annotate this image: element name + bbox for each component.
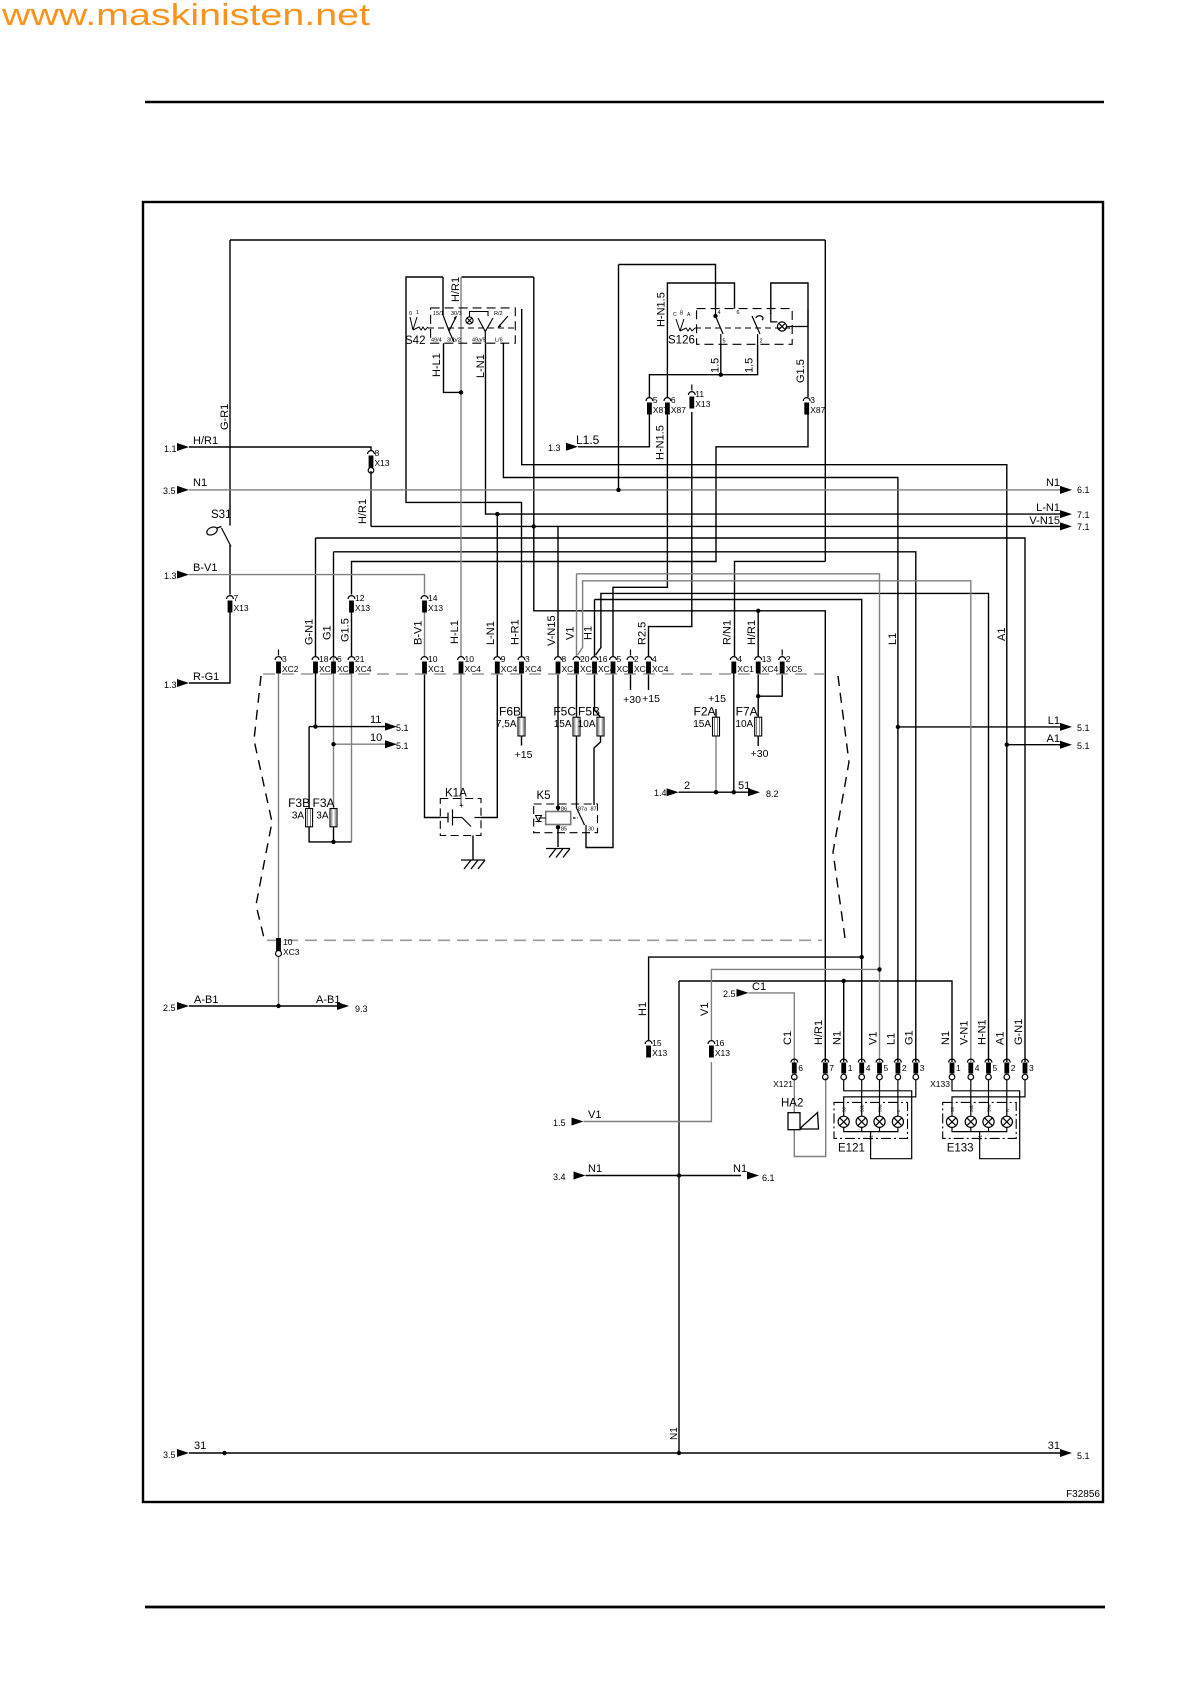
wire B-V1 gray row: [189, 575, 425, 595]
wire G1 XC4-6 to X121 pin 3: [333, 552, 335, 656]
S126 lamp: [771, 309, 808, 332]
wire S42 terminal 15/1 stub: [442, 277, 444, 315]
svg-text:1.4: 1.4: [654, 788, 667, 798]
wire V1 stub X13-16: [711, 969, 879, 1040]
svg-text:51: 51: [738, 780, 750, 792]
svg-text:58: 58: [950, 1106, 955, 1112]
connector X121 pin 2: [895, 1059, 907, 1080]
connector X133 pin 2: [1003, 1059, 1015, 1080]
arrow 1.3 B-V1: [177, 571, 189, 579]
node junction: [756, 609, 760, 613]
svg-text:13: 13: [762, 654, 772, 664]
svg-text:2: 2: [684, 780, 690, 792]
connector XC5 pin 2: [779, 650, 803, 675]
connector XC4 pin 21: [348, 654, 372, 674]
svg-text:V-N15: V-N15: [546, 615, 558, 646]
connector X87 pin 6: [664, 395, 686, 415]
wire H1 below XC4-16 to F5B: [595, 673, 601, 717]
wire B-V1 between X13-14 and XC1-10: [424, 611, 426, 656]
svg-text:8: 8: [375, 448, 380, 458]
svg-text:L-N1: L-N1: [475, 354, 487, 378]
svg-text:H-L1: H-L1: [449, 620, 461, 644]
svg-text:49/4: 49/4: [431, 338, 442, 344]
wire F5B to K5: [594, 737, 601, 806]
svg-text:R-G1: R-G1: [193, 671, 219, 683]
wire E121 return loop: [844, 1080, 912, 1159]
lamp E133 bulb 2: [965, 1116, 976, 1127]
arrow 2.5 A-B1: [177, 1002, 189, 1010]
node junction: [860, 955, 864, 959]
wire S126 terminal 2 down: [721, 344, 758, 374]
wire N1 feed to X121-1 X133-1: [679, 981, 952, 1062]
svg-text:N1: N1: [940, 1031, 952, 1045]
svg-text:F7A: F7A: [736, 705, 758, 719]
svg-text:1: 1: [769, 310, 772, 316]
svg-text:S126: S126: [668, 335, 695, 347]
svg-text:30/3: 30/3: [451, 311, 462, 317]
connector XC4 pin 6: [330, 654, 354, 674]
svg-text:31: 31: [869, 1134, 874, 1140]
svg-text:5: 5: [884, 1063, 889, 1073]
svg-text:5: 5: [617, 654, 622, 664]
svg-text:R/2: R/2: [494, 311, 503, 317]
fuse F7A: [735, 705, 761, 737]
svg-text:10: 10: [465, 654, 475, 664]
svg-text:H/R1: H/R1: [813, 1020, 825, 1045]
wire 10 row gray: [334, 743, 388, 745]
wire A-B1 row: [189, 1005, 340, 1007]
lamp E133 bulb 1: [946, 1116, 957, 1127]
svg-text:56a: 56a: [987, 1104, 992, 1112]
wire feed lamp: [897, 1080, 899, 1108]
wire V-N15 below XC4-8 to K5 coil: [557, 673, 559, 812]
connector X13 pin 11: [688, 385, 710, 410]
lamp bus 31: [844, 1127, 898, 1131]
svg-text:X13: X13: [428, 603, 443, 613]
svg-text:V1: V1: [588, 1109, 601, 1121]
connector X13 pin 15: [645, 1038, 667, 1058]
svg-text:2: 2: [902, 1063, 907, 1073]
arrow 3.4 N1: [574, 1172, 586, 1180]
svg-text:15: 15: [652, 1038, 662, 1048]
wire N1 to 6.1 arrow lower: [679, 1175, 741, 1177]
svg-text:C1: C1: [782, 1031, 794, 1045]
svg-text:7.1: 7.1: [1077, 510, 1090, 520]
K5 coil: [546, 812, 571, 825]
connector X133 pin 3: [1022, 1059, 1034, 1080]
svg-text:+: +: [459, 801, 464, 810]
svg-text:XC1: XC1: [737, 664, 754, 674]
svg-text:XC4: XC4: [652, 664, 669, 674]
svg-text:1: 1: [848, 1063, 853, 1073]
S42 indicator lamp: [466, 312, 488, 325]
wire H/R1 1.1 row: [189, 447, 371, 451]
svg-text:G1.5: G1.5: [795, 359, 807, 383]
switch S42 dashed box: [431, 308, 516, 343]
S126 blade 1: [716, 309, 724, 345]
fuse F5C: [553, 705, 580, 737]
svg-text:18: 18: [319, 654, 329, 664]
node junction: [495, 512, 499, 516]
S126 blade 2 with curl: [752, 316, 763, 345]
wire R-G1 lower to arrow: [189, 611, 230, 683]
svg-text:6: 6: [671, 395, 676, 405]
svg-text:16: 16: [598, 654, 608, 664]
wire L-N1 drop to XC4 pin 9: [496, 514, 498, 656]
svg-text:1.3: 1.3: [548, 443, 561, 453]
wire L1 branch arrow 5.1: [898, 726, 1060, 728]
connector XC4 pin 3: [518, 654, 542, 674]
arrow V-N15 7.1: [1060, 522, 1072, 530]
svg-text:G1.5: G1.5: [339, 618, 351, 642]
wire G-R1/R-N1 top loop box: [230, 239, 825, 241]
connector XC3 pin 10: [276, 937, 300, 957]
lamp E121 bulb 2: [856, 1116, 867, 1127]
connector X121 pin 6: [791, 1059, 803, 1080]
svg-text:H-N1: H-N1: [976, 1019, 988, 1045]
wire L-N1 main to 7.1 arrow: [486, 343, 1061, 514]
svg-text:H-N1.5: H-N1.5: [655, 425, 667, 460]
svg-text:H-N1.5: H-N1.5: [656, 292, 668, 327]
wire F5C to K5: [576, 736, 578, 808]
wire feed lamp: [970, 1080, 972, 1108]
svg-text:E133: E133: [947, 1143, 974, 1155]
wire S126 feed drop to N1: [618, 265, 620, 490]
arrow A-B1 9.3: [337, 1002, 349, 1010]
svg-text:www.maskinisten.net: www.maskinisten.net: [1, 0, 371, 32]
wire H-N1.5 X87-6 down to XC4 pin 5: [613, 412, 667, 656]
svg-text:1.3: 1.3: [164, 680, 177, 690]
svg-text:30b/2: 30b/2: [447, 338, 461, 344]
wire S126 top loop 1: [619, 265, 716, 309]
svg-text:3A: 3A: [292, 811, 305, 822]
wire G-N1 XC4-18 to X133 pin 3: [315, 538, 317, 656]
wire XC4-13 below to F7A and XC5-2: [757, 673, 759, 717]
svg-text:X13: X13: [695, 399, 710, 409]
arrow 3.5 N1: [177, 486, 189, 494]
K5 diode: [536, 816, 546, 822]
wire F3A lower to bus: [333, 744, 335, 808]
wire S126 top loop 2 H-N1.5: [667, 283, 734, 397]
svg-text:2: 2: [760, 339, 763, 345]
S42 lever symbol: [410, 317, 428, 330]
wire XC2-3 down to XC3-10: [278, 673, 280, 938]
svg-text:10: 10: [428, 654, 438, 664]
svg-text:X13: X13: [652, 1048, 667, 1058]
svg-text:5: 5: [993, 1063, 998, 1073]
wire E133 pin3 jog: [952, 1080, 1025, 1108]
bottom rule: [145, 1606, 1105, 1609]
svg-text:N1: N1: [588, 1163, 602, 1175]
svg-text:X121: X121: [773, 1079, 793, 1089]
svg-text:1.5: 1.5: [744, 358, 756, 373]
switch S126 dashed box: [697, 309, 793, 345]
svg-text:G-N1: G-N1: [303, 619, 315, 645]
wire C1 loop: [749, 993, 795, 1063]
svg-text:L/6: L/6: [495, 338, 503, 344]
svg-text:10A: 10A: [735, 719, 753, 730]
wire H/R1 below connector 8 to corner: [370, 471, 372, 526]
K1A internals: [440, 810, 481, 827]
wire G1.5 below XC4-21 to F3 bus: [351, 673, 353, 842]
K1A ground: [461, 860, 485, 869]
wire 1.4 row 2 to 51: [679, 791, 748, 793]
svg-text:G1: G1: [904, 1030, 916, 1045]
wire feed lamp: [879, 1080, 881, 1108]
svg-text:10: 10: [283, 937, 293, 947]
relay K1A dashed box: [440, 799, 481, 836]
connector X13 pin 8: [368, 448, 390, 473]
wire K1A blade to ground: [472, 836, 474, 860]
svg-text:XC1: XC1: [428, 664, 445, 674]
svg-text:G1: G1: [321, 625, 333, 640]
svg-text:E121: E121: [838, 1143, 865, 1155]
svg-text:6.1: 6.1: [762, 1173, 775, 1183]
wire G-R1 vertical lower through S31 to R-G1: [229, 545, 231, 595]
svg-text:6: 6: [798, 1063, 803, 1073]
arrow L1 5.1: [1060, 723, 1072, 731]
wire K5 coil bottom to ground: [557, 825, 559, 848]
S126 lever symbol: [676, 319, 695, 331]
arrow 1.5 V1: [572, 1118, 584, 1126]
K5 ground: [546, 849, 570, 858]
svg-text:F32856: F32856: [1066, 1489, 1100, 1500]
S126 mechanical dashed link: [695, 327, 790, 329]
arrow N1 6.1 lower: [747, 1172, 759, 1180]
node junction: [313, 724, 317, 728]
connector XC4 pin 20: [573, 654, 597, 674]
lamp E133 bulb 4: [1001, 1116, 1012, 1127]
svg-text:G-R1: G-R1: [219, 404, 231, 430]
svg-text:A1: A1: [995, 1032, 1007, 1045]
svg-text:10: 10: [370, 732, 382, 744]
connector XC1 pin 4: [730, 654, 754, 674]
svg-text:V-N1: V-N1: [959, 1021, 971, 1045]
wire A1 branch arrow 5.1: [1007, 744, 1060, 746]
wire K5 30 to XC4-5: [586, 673, 613, 848]
node junction: [677, 1451, 681, 1455]
svg-text:4: 4: [866, 1063, 871, 1073]
svg-text:+30: +30: [751, 748, 769, 760]
node junction: [713, 314, 717, 318]
svg-text:XC4: XC4: [355, 664, 372, 674]
connector X121 pin 3: [912, 1059, 924, 1080]
svg-text:L-N1: L-N1: [485, 621, 497, 645]
wire V-N1 jog at XC4-20 to X133 pin 4: [578, 581, 971, 1062]
node junction: [556, 825, 560, 829]
node junction: [276, 1004, 280, 1008]
svg-text:H-R1: H-R1: [509, 619, 521, 645]
node junction: [1005, 743, 1009, 747]
svg-text:2: 2: [1011, 1063, 1016, 1073]
svg-text:F3A: F3A: [312, 796, 334, 810]
svg-text:5: 5: [653, 395, 658, 405]
connector X121 pin 7: [822, 1059, 834, 1080]
wire S126 lamp loop to X87-3: [771, 283, 808, 397]
wire H/R1 branch down to XC4-13: [757, 611, 759, 656]
svg-text:XC4: XC4: [501, 664, 518, 674]
wire V1 below XC4-20 to F5C: [576, 673, 578, 717]
svg-text:14: 14: [428, 593, 438, 603]
svg-text:X13: X13: [355, 603, 370, 613]
connector XC4 pin 13: [755, 654, 779, 674]
wire E121 pin3 jog: [844, 1080, 916, 1108]
svg-text:F3B: F3B: [288, 796, 310, 810]
top rule: [145, 101, 1104, 104]
svg-text:2: 2: [634, 654, 639, 664]
svg-text:56b: 56b: [969, 1104, 974, 1112]
page frame: [143, 202, 1103, 1502]
connector X13 pin 7: [227, 593, 249, 613]
wire E133 return loop: [952, 1080, 1020, 1159]
svg-text:5.1: 5.1: [1077, 1451, 1090, 1461]
svg-text:3.5: 3.5: [163, 486, 176, 496]
svg-text:3A: 3A: [316, 811, 329, 822]
connector X121 pin 1: [840, 1059, 852, 1080]
connector XC4 pin 4: [645, 654, 669, 674]
connector X13 pin 12: [348, 593, 370, 613]
svg-text:4: 4: [652, 654, 657, 664]
svg-text:N1: N1: [669, 1427, 680, 1440]
wire HA2 loop: [793, 1078, 795, 1113]
wire H-L1 gray vertical: [460, 277, 462, 656]
node junction: [842, 979, 846, 983]
lamp cluster E121 dash-dot box: [834, 1102, 908, 1138]
svg-text:7: 7: [829, 1063, 834, 1073]
arrow 1.3 L1.5: [566, 443, 578, 451]
svg-text:1.1: 1.1: [164, 444, 177, 454]
arrow 1.4: [667, 788, 679, 796]
node junction: [556, 806, 560, 810]
wire L-N1 below XC4-9 to K1A right: [481, 673, 497, 818]
svg-text:1: 1: [956, 1063, 961, 1073]
svg-text:4: 4: [975, 1063, 980, 1073]
svg-text:2: 2: [786, 654, 791, 664]
S42 contact blade 1: [443, 315, 457, 342]
svg-text:F6B: F6B: [499, 705, 521, 719]
connector X121 pin 4: [858, 1059, 870, 1080]
wire S126 terminal 5 down with 1.5 label: [649, 344, 720, 397]
svg-text:31: 31: [194, 1440, 206, 1452]
svg-text:R/N1: R/N1: [722, 620, 734, 645]
svg-text:H1: H1: [582, 626, 594, 640]
wire 31 bottom row: [189, 1452, 1060, 1454]
svg-text:87a: 87a: [578, 807, 588, 813]
svg-text:20: 20: [580, 654, 590, 664]
svg-text:A1: A1: [996, 628, 1008, 641]
svg-text:7: 7: [234, 593, 239, 603]
wire XC1-4 below to 2/51 row: [733, 673, 735, 792]
svg-text:+15: +15: [515, 749, 533, 761]
connector XC4 pin 16: [591, 654, 615, 674]
svg-text:C: C: [673, 312, 677, 318]
svg-text:B-V1: B-V1: [412, 621, 424, 645]
svg-text:V1: V1: [699, 1003, 711, 1016]
svg-text:L1: L1: [1048, 715, 1060, 727]
svg-text:12: 12: [355, 593, 365, 603]
svg-text:L1.5: L1.5: [576, 433, 600, 447]
svg-text:2.5: 2.5: [723, 989, 736, 999]
S42 mechanical dashed link: [428, 327, 514, 329]
wire G1.5 between X13-12 and XC4-21: [351, 611, 353, 656]
connector X121 pin 5: [876, 1059, 888, 1080]
wire XC3-10 to A-B1: [278, 956, 280, 1006]
svg-text:L-N1: L-N1: [1036, 502, 1060, 514]
svg-text:8.2: 8.2: [766, 789, 779, 799]
svg-text:A-B1: A-B1: [316, 994, 340, 1006]
wire L1 from S42 L/6 to X121 pin 2: [503, 343, 898, 1062]
arrow 31 5.1: [1060, 1449, 1072, 1457]
connector XC4 pin 18: [312, 654, 336, 674]
wire 11 row: [309, 726, 387, 728]
svg-text:10A: 10A: [578, 719, 596, 730]
svg-text:A-B1: A-B1: [194, 994, 218, 1006]
svg-text:5.1: 5.1: [396, 723, 409, 733]
svg-text:87: 87: [591, 807, 597, 813]
svg-text:+15: +15: [708, 693, 726, 705]
wire V1 1.5 row: [584, 1062, 712, 1122]
connector X13 pin 14: [421, 593, 443, 613]
svg-text:15A: 15A: [693, 719, 711, 730]
lamp E121 bulb 1: [838, 1116, 849, 1127]
svg-text:1.5: 1.5: [710, 358, 722, 373]
wire G1.5 X87-3 to XC4-21: [352, 412, 809, 595]
arrow 1.1 H/R1: [177, 443, 189, 451]
wire N1 gray main row: [189, 489, 1060, 491]
wire L1.5 row to X87 pin 5: [578, 412, 649, 447]
svg-text:1.5: 1.5: [553, 1118, 566, 1128]
S42 contact blade 2: [478, 316, 508, 343]
wire F6B feed below XC4-3: [521, 673, 523, 717]
svg-text:3: 3: [1029, 1063, 1034, 1073]
svg-text:8: 8: [562, 654, 567, 664]
svg-text:15A: 15A: [554, 719, 572, 730]
wire F3B bottom to bus: [309, 827, 351, 842]
connector X133 pin 4: [967, 1059, 979, 1080]
svg-text:+15: +15: [642, 693, 660, 705]
connector X13 pin 16: [708, 1038, 730, 1058]
svg-text:56a: 56a: [878, 1104, 883, 1112]
node junction: [877, 967, 881, 971]
svg-text:X13: X13: [375, 458, 390, 468]
svg-text:G-N1: G-N1: [1013, 1019, 1025, 1045]
svg-text:30: 30: [588, 827, 594, 833]
arrow N1 6.1: [1060, 486, 1072, 494]
wire feed lamp: [988, 1080, 990, 1108]
wire H-R1 S42 hook: [406, 277, 522, 656]
wire V-N15 main: H/R1 corner east to 7.1 arrow: [371, 525, 1060, 527]
fuse F3B: [288, 796, 313, 827]
wire B-V1 below XC1-10 to K1A: [425, 673, 441, 818]
arrow 11 5.1: [385, 723, 397, 731]
connector X133 pin 1: [949, 1059, 961, 1080]
node junction: [222, 1451, 226, 1455]
lamp E121 bulb 3: [874, 1116, 885, 1127]
svg-text:2.5: 2.5: [163, 1003, 176, 1013]
svg-text:X13: X13: [234, 603, 249, 613]
svg-text:N1: N1: [1046, 477, 1060, 489]
fuse F5B: [578, 705, 604, 737]
connector XC2 pin 3: [275, 650, 299, 675]
svg-text:H/R1: H/R1: [193, 435, 218, 447]
wire XC4-2 stub: [630, 673, 632, 690]
arrow 2.5 C1: [737, 989, 749, 997]
svg-text:58: 58: [842, 1106, 847, 1112]
svg-text:A1: A1: [1047, 733, 1060, 745]
svg-text:16: 16: [715, 1038, 725, 1048]
svg-text:7.1: 7.1: [1077, 522, 1090, 532]
svg-text:R2.5: R2.5: [636, 622, 648, 645]
